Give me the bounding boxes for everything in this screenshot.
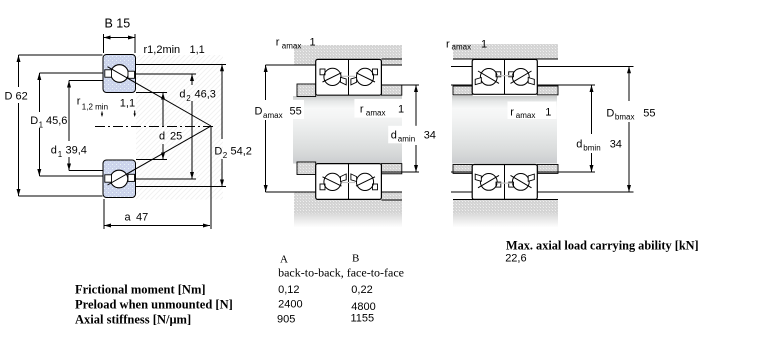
ball bottom xyxy=(110,170,128,188)
middle shaft gradient xyxy=(293,96,402,164)
right upper cage square left xyxy=(496,72,501,77)
svg-text:amax: amax xyxy=(452,43,472,52)
svg-text:1: 1 xyxy=(398,104,404,116)
svg-text:r: r xyxy=(77,96,81,108)
svg-text:1,1: 1,1 xyxy=(190,44,205,56)
right lower cage square right xyxy=(509,182,514,187)
right lower left ball xyxy=(480,174,497,191)
right upper left ball contact line xyxy=(478,71,499,83)
contact angle line top xyxy=(108,67,212,126)
svg-text:0,22: 0,22 xyxy=(351,284,372,296)
middle housing bottom gray xyxy=(294,192,402,214)
svg-text:d: d xyxy=(159,131,165,143)
middle shaft shoulder upper-left xyxy=(297,84,316,97)
ball top xyxy=(111,65,129,83)
dimension a 47 xyxy=(104,199,210,229)
svg-text:905: 905 xyxy=(277,314,295,326)
svg-text:amax: amax xyxy=(516,111,536,120)
middle housing bore edge lines xyxy=(294,59,402,200)
right upper left ball xyxy=(480,69,497,86)
svg-text:1: 1 xyxy=(545,107,551,119)
svg-text:B 15: B 15 xyxy=(105,17,131,31)
dimension B 15 xyxy=(104,34,136,53)
svg-text:25: 25 xyxy=(170,131,182,143)
white label box r amax right figure xyxy=(508,102,557,120)
svg-text:d: d xyxy=(576,139,582,151)
right lower left ball contact line xyxy=(478,175,499,187)
svg-text:1,2 min: 1,2 min xyxy=(82,103,108,112)
right housing top gray xyxy=(453,44,558,59)
middle upper cage square right xyxy=(373,69,378,75)
svg-text:2400: 2400 xyxy=(278,299,302,311)
bearing ring cross-section bottom block xyxy=(103,160,136,198)
svg-text:r: r xyxy=(360,104,364,116)
svg-text:54,2: 54,2 xyxy=(231,146,252,158)
right housing bottom gray xyxy=(453,199,558,213)
svg-text:34: 34 xyxy=(424,130,436,142)
middle lower cage square left xyxy=(320,184,325,190)
middle lower inner-ring flange left xyxy=(341,174,347,182)
right upper right ball contact line xyxy=(511,71,532,83)
svg-text:amax: amax xyxy=(366,109,386,118)
svg-text:55: 55 xyxy=(643,108,655,120)
svg-text:amax: amax xyxy=(282,42,302,51)
right upper spacer line xyxy=(497,75,513,77)
svg-text:46,3: 46,3 xyxy=(195,89,216,101)
right lower spacer line xyxy=(497,182,513,184)
right shoulder lower-right xyxy=(537,165,558,174)
right lower bearing pair box xyxy=(472,165,537,200)
right upper outer flange left xyxy=(475,78,481,85)
middle lower inner-ring flange right xyxy=(351,174,357,182)
svg-text:r1,2min: r1,2min xyxy=(144,44,181,56)
svg-text:1: 1 xyxy=(481,39,487,51)
svg-text:0,12: 0,12 xyxy=(278,284,299,296)
svg-text:55: 55 xyxy=(290,106,302,118)
svg-text:1155: 1155 xyxy=(351,313,375,325)
middle upper spacer line xyxy=(342,75,355,77)
right upper bearing pair box xyxy=(472,59,537,94)
cage detail bottom-left xyxy=(105,175,112,182)
middle housing top gray xyxy=(294,45,402,65)
cage detail top-right xyxy=(128,71,135,78)
svg-text:Axial stiffness [N/μm]: Axial stiffness [N/μm] xyxy=(75,313,191,327)
right lower right ball xyxy=(512,174,529,191)
middle upper right ball contact line xyxy=(356,73,375,82)
svg-text:D: D xyxy=(214,146,222,158)
svg-text:r: r xyxy=(276,37,280,49)
r leader tick right xyxy=(134,111,136,115)
right lower outer flange left xyxy=(475,174,481,181)
right upper outer flange right xyxy=(528,78,534,85)
middle lower box divider xyxy=(348,164,350,200)
middle fade below xyxy=(294,214,402,228)
dimension D2 54,2 xyxy=(136,64,226,186)
svg-text:r: r xyxy=(446,39,450,51)
cage detail top-left xyxy=(105,70,112,77)
middle upper inner-ring flange right xyxy=(351,77,357,85)
middle shaft shoulder lower-left xyxy=(297,162,316,175)
svg-text:amax: amax xyxy=(263,111,283,120)
table and captions xyxy=(75,239,699,327)
svg-text:D: D xyxy=(606,108,614,120)
svg-text:1: 1 xyxy=(58,150,63,159)
svg-text:r: r xyxy=(510,107,514,119)
dimension d2 46,3 xyxy=(136,74,196,179)
svg-text:B: B xyxy=(352,253,359,265)
middle upper inner-ring flange left xyxy=(341,77,347,85)
right shaft gradient xyxy=(452,96,557,164)
right bore lines upper xyxy=(451,66,634,85)
dimension D bmax 55 xyxy=(628,66,630,192)
svg-text:4800: 4800 xyxy=(351,301,375,313)
right shoulder upper-right xyxy=(537,86,558,95)
white label box D amax 55 xyxy=(252,100,304,119)
svg-text:34: 34 xyxy=(610,139,622,151)
cage detail bottom-right xyxy=(128,174,135,181)
middle lower left ball xyxy=(324,173,341,190)
right lower outer flange right xyxy=(528,174,534,181)
svg-text:d: d xyxy=(179,89,185,101)
white label box d amin 34 xyxy=(388,126,446,144)
middle shaft shoulder upper-right xyxy=(381,85,401,95)
dimension d amin 34 xyxy=(381,85,419,172)
svg-text:1: 1 xyxy=(310,37,316,49)
svg-text:Max. axial load carrying abili: Max. axial load carrying ability [kN] xyxy=(506,239,699,253)
svg-text:Frictional moment [Nm]: Frictional moment [Nm] xyxy=(75,283,206,297)
svg-text:D: D xyxy=(30,115,38,127)
dimension D amax 55 xyxy=(266,65,294,192)
svg-text:47: 47 xyxy=(136,212,148,224)
middle lower right ball xyxy=(356,173,373,190)
svg-text:D: D xyxy=(255,106,263,118)
middle upper cage square left xyxy=(320,69,325,75)
white label box r amax middle xyxy=(354,99,407,118)
right upper box divider xyxy=(504,59,506,94)
contact angle line bottom xyxy=(108,126,212,185)
svg-text:39,4: 39,4 xyxy=(66,145,87,157)
dimension d1 39,4 xyxy=(69,81,103,171)
r leader tick left xyxy=(101,112,103,115)
svg-text:2: 2 xyxy=(186,94,191,103)
right lower box divider xyxy=(504,165,506,200)
svg-text:2: 2 xyxy=(223,151,228,160)
svg-text:Preload when unmounted [N]: Preload when unmounted [N] xyxy=(75,298,233,312)
svg-text:45,6: 45,6 xyxy=(46,115,67,127)
left figure hatched background panel xyxy=(136,55,223,200)
dimension d 25 xyxy=(136,93,167,160)
svg-text:1: 1 xyxy=(39,121,44,130)
middle lower left ball contact line xyxy=(323,177,342,186)
svg-text:amin: amin xyxy=(398,135,415,144)
svg-text:A: A xyxy=(280,254,288,266)
right shoulder lower-left xyxy=(453,165,472,174)
right shoulder upper-left xyxy=(453,86,472,95)
right upper right ball xyxy=(512,69,529,86)
middle lower spacer line xyxy=(342,182,355,184)
middle upper box divider xyxy=(348,59,350,95)
svg-text:d: d xyxy=(391,130,397,142)
dimension d bmin 34 xyxy=(591,85,593,172)
right housing band edge lines xyxy=(453,59,558,199)
right fade below xyxy=(453,214,558,228)
middle shaft shoulder lower-right xyxy=(381,164,401,174)
bearing axis centerline xyxy=(95,126,214,128)
svg-text:bmax: bmax xyxy=(615,113,635,122)
svg-text:back-to-back, face-to-face: back-to-back, face-to-face xyxy=(278,266,404,280)
middle upper left ball xyxy=(324,68,341,85)
apex extension line down to a-dimension xyxy=(210,126,212,229)
right lower cage square left xyxy=(496,182,501,187)
middle lower right ball contact line xyxy=(356,177,375,186)
svg-text:bmin: bmin xyxy=(583,144,600,153)
svg-text:22,6: 22,6 xyxy=(505,253,526,265)
bearing ring cross-section top block xyxy=(103,55,136,93)
middle upper left ball contact line xyxy=(323,73,342,82)
right bore lines lower xyxy=(451,172,634,192)
svg-text:d: d xyxy=(51,145,57,157)
right lower right ball contact line xyxy=(511,175,532,187)
middle upper right ball xyxy=(356,68,373,85)
right upper cage square right xyxy=(509,72,514,77)
svg-text:a: a xyxy=(125,212,132,224)
svg-text:D 62: D 62 xyxy=(5,91,28,103)
dimension D 62 xyxy=(19,55,103,196)
middle upper bearing pair box xyxy=(316,59,382,95)
middle lower bearing pair box xyxy=(316,164,382,200)
middle lower cage square right xyxy=(373,184,378,190)
svg-text:1,1: 1,1 xyxy=(120,97,135,109)
dimension D1 45,6 xyxy=(39,73,102,176)
